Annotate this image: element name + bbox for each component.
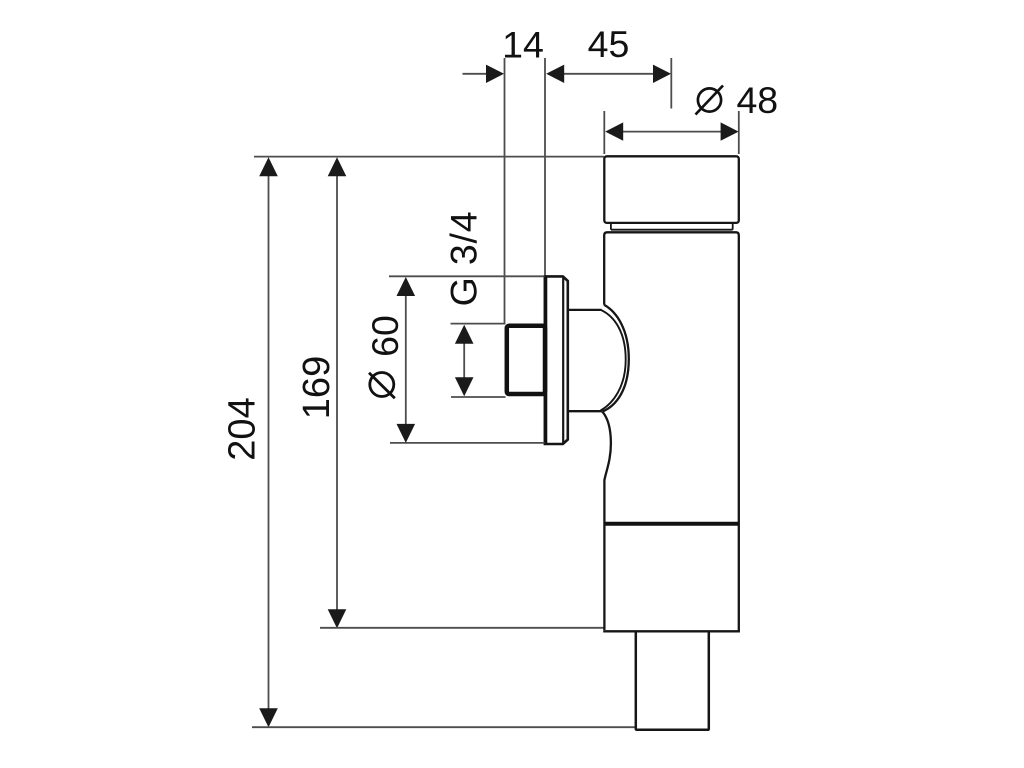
svg-text:G 3/4: G 3/4 [443, 211, 485, 307]
dome inner curve [601, 310, 626, 411]
section joint thick line [605, 522, 739, 526]
svg-text:48: 48 [736, 79, 778, 121]
dome top edge [568, 309, 602, 311]
dimension G3/4 line with arrows [455, 325, 474, 396]
dimension 48 extension lines [604, 111, 739, 154]
svg-text:169: 169 [296, 356, 338, 419]
dimension 60 vertical line with arrows [397, 277, 416, 443]
label diameter 48 (drawn slashed-O + text) [696, 79, 779, 121]
wall flange plate [545, 276, 568, 446]
body bottom edge [603, 630, 740, 632]
extension line: 45 right (body axis) [670, 58, 672, 109]
svg-text:14: 14 [502, 24, 544, 66]
dimension 14 leader arrow [463, 65, 505, 83]
extension line: 14 left (wall face) [504, 58, 506, 324]
svg-text:45: 45 [588, 23, 630, 65]
valve main body outline [604, 232, 739, 631]
dome bottom edge [568, 410, 602, 412]
dimension 169 bottom extension line [320, 627, 605, 629]
svg-text:204: 204 [222, 397, 264, 460]
dimension 48 line with arrows [605, 122, 738, 140]
body neck S-curve below dome [602, 412, 611, 630]
extension line: top reference (valve top level) [254, 156, 604, 158]
threaded inlet connector G3/4 [507, 326, 545, 394]
svg-text:60: 60 [364, 315, 406, 357]
valve top cap [604, 156, 739, 223]
cap groove [611, 223, 733, 230]
G3/4 extension lines [451, 324, 506, 397]
diameter 60 extension lines [389, 276, 545, 443]
dimension 169 vertical line [328, 157, 347, 628]
outlet spigot [636, 631, 709, 730]
dimension 45 line with arrows [546, 65, 671, 83]
dimension 204 bottom extension line [252, 726, 636, 728]
dimension 204 vertical line [259, 157, 278, 727]
label diameter 60 (rotated, drawn slashed-O + text) [364, 315, 406, 398]
extension line: 14/45 shared (flange face) [544, 58, 546, 276]
dome (side inlet boss) outer curve [602, 305, 629, 412]
